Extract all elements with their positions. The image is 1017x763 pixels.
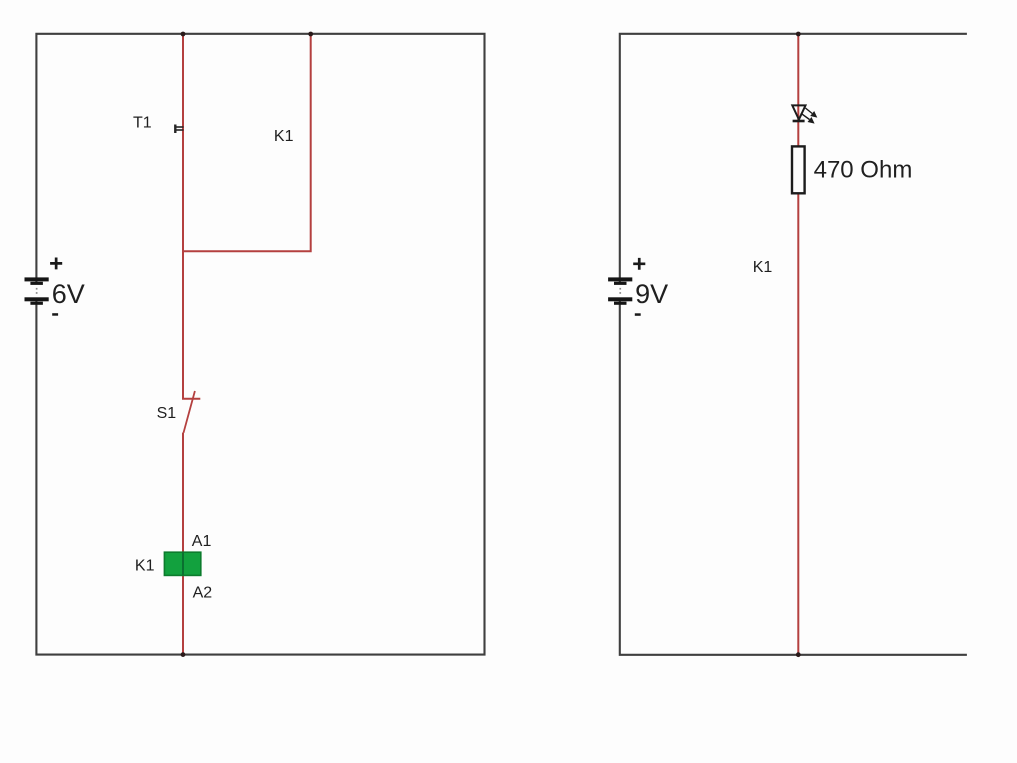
junction node: top of K1 branch bbox=[308, 32, 313, 37]
svg-text:9V: 9V bbox=[635, 279, 668, 309]
svg-text:S1: S1 bbox=[157, 405, 177, 422]
battery B2 dotted separator bbox=[619, 288, 621, 290]
junction node: top of S1 branch bbox=[181, 32, 186, 37]
wire: red from switch to bottom rail through relay coil bbox=[182, 433, 184, 655]
wire: left circuit outer loop (black rails) bbox=[36, 34, 484, 655]
battery B1 minus sign bbox=[52, 313, 58, 316]
battery B1 gap: white mask over left rail between cells bbox=[33, 284, 39, 298]
battery B2 plate long (bottom cell) bbox=[608, 297, 632, 301]
LED D1 cathode bar bbox=[793, 120, 805, 123]
svg-text:K1: K1 bbox=[135, 558, 155, 575]
resistor R1 body bbox=[792, 146, 805, 193]
junction node: top of LED branch bbox=[796, 32, 801, 37]
svg-text:K1: K1 bbox=[274, 128, 294, 145]
battery B2 plus sign bbox=[633, 258, 645, 270]
svg-text:470 Ohm: 470 Ohm bbox=[814, 156, 913, 183]
relay coil K1 (green box) bbox=[164, 552, 200, 575]
battery B1 plate short (- bottom cell) bbox=[30, 302, 43, 305]
wire: red branch K1 (from node to top rail) bbox=[183, 34, 311, 251]
contact T1 symbol bbox=[174, 125, 176, 134]
battery B1 plate long (bottom cell) bbox=[25, 297, 49, 301]
wire: red branch with LED and resistor bbox=[797, 34, 799, 655]
relay coil K1 inner wire shadow bbox=[182, 552, 184, 575]
svg-text:A2: A2 bbox=[193, 584, 213, 601]
svg-text:T1: T1 bbox=[133, 115, 152, 132]
battery B2 minus sign bbox=[635, 313, 641, 316]
battery B1 plus sign bbox=[50, 258, 62, 270]
wire: right circuit rails (open at right side) bbox=[620, 34, 967, 655]
wire: red branch from top rail through T1 down to switch S1 bbox=[183, 34, 200, 399]
LED D1 light arrow 1 bbox=[805, 108, 812, 114]
switch S1 blade bbox=[184, 391, 195, 433]
LED D1 light arrow 2 bbox=[801, 113, 810, 119]
battery B2 gap: white mask over left rail between cells bbox=[617, 284, 623, 298]
junction node: bottom of LED branch bbox=[796, 652, 801, 657]
junction node: bottom of S1 branch bbox=[181, 652, 186, 657]
svg-text:A1: A1 bbox=[192, 533, 212, 550]
LED D1 triangle bbox=[792, 105, 805, 119]
battery B1 plate short (top cell) bbox=[30, 282, 43, 285]
battery B1 plate long (+ top cell) bbox=[25, 277, 49, 281]
svg-text:6V: 6V bbox=[52, 279, 85, 309]
battery B2 plate long (+ top cell) bbox=[608, 277, 632, 281]
battery B1 dotted separator bbox=[36, 288, 38, 290]
svg-text:K1: K1 bbox=[753, 259, 773, 276]
battery B2 plate short (- bottom cell) bbox=[614, 302, 627, 305]
battery B2 plate short (top cell) bbox=[614, 282, 627, 285]
